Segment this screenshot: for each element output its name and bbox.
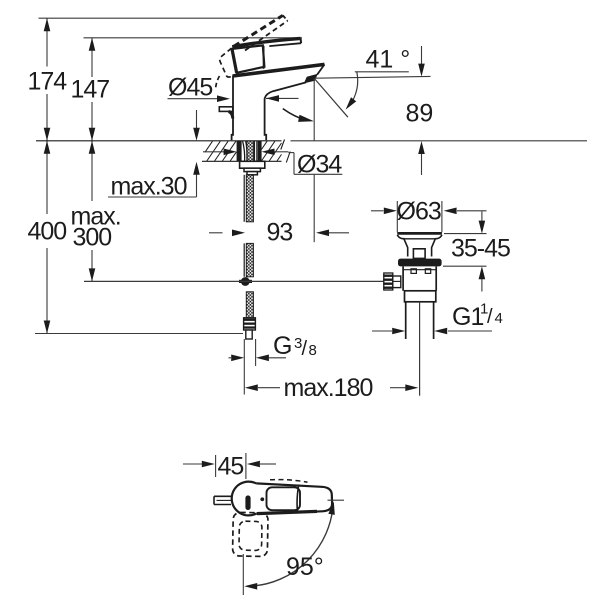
dim 89 arrow up <box>418 141 425 154</box>
dim G114 left line <box>372 330 392 332</box>
dim G114 arrow left <box>434 328 447 335</box>
svg-text:89: 89 <box>406 100 434 128</box>
svg-text:max.180: max.180 <box>284 374 373 402</box>
drain flange top thick line <box>397 232 442 235</box>
dim 174 arrow down <box>44 128 51 141</box>
95deg arrow left <box>244 583 257 590</box>
dim max180 arrow right <box>405 384 418 391</box>
dim 89 upper line <box>421 46 423 65</box>
dashed raised lever top edge <box>234 15 283 46</box>
dim G114 arrow right <box>392 328 405 335</box>
counter top line left part <box>36 140 282 142</box>
95deg vertical leg <box>242 554 244 595</box>
dim 400 arrow down <box>44 321 51 334</box>
dim d45 arrow left at body right edge <box>266 95 279 102</box>
dim d34 underline <box>294 173 342 175</box>
svg-text:147: 147 <box>71 76 110 104</box>
handle lever bottom edge <box>269 43 301 46</box>
pop-up rod knob <box>219 107 233 112</box>
41deg underline <box>355 71 409 73</box>
dim G38 left line <box>229 357 232 359</box>
faucet body right edge <box>265 99 267 141</box>
svg-text:300: 300 <box>73 224 112 252</box>
top view body bottom edge thick <box>257 511 317 513</box>
horizontal pop-up rod / max300 reference line <box>84 280 384 282</box>
dim d34 right line <box>274 151 289 153</box>
dim 45 extension left <box>215 455 217 477</box>
pop-up rod curve in hole <box>243 141 245 161</box>
rod attachment inner line <box>393 280 401 282</box>
dim 3545 arrow up <box>479 266 486 279</box>
drain flange left profile <box>397 235 407 257</box>
dim 3545 upper line <box>481 212 483 222</box>
hose end connector <box>246 330 252 339</box>
svg-text:Ø45: Ø45 <box>168 74 212 102</box>
dim 3545 upper extension <box>444 233 487 235</box>
handle neck edge <box>263 46 265 69</box>
svg-text:35-45: 35-45 <box>451 235 510 263</box>
dim d34 arrow left at hole right edge <box>262 149 275 156</box>
dim 3545 arrow down <box>479 221 486 234</box>
svg-text:95°: 95° <box>286 553 324 581</box>
svg-text:/: / <box>302 338 308 360</box>
spout swing arc arrowhead <box>298 115 314 122</box>
drain tailpipe centerline / max180 extension <box>419 302 421 396</box>
dim 45 arrow left <box>247 461 260 468</box>
dim d34 leader from counter break <box>289 152 295 154</box>
handle lever top edge thick <box>232 38 300 46</box>
svg-text:G1: G1 <box>452 303 483 331</box>
dim 147 vertical line upper <box>91 38 93 77</box>
top view stub middle line <box>217 499 232 501</box>
handle lever end cap <box>300 38 303 43</box>
drain flange underside line <box>404 238 435 240</box>
counter hatching <box>205 141 282 161</box>
dim d45 right line <box>266 97 299 99</box>
95deg arrow up <box>328 502 335 515</box>
drain body left side <box>402 266 404 290</box>
dim max300 arrow up <box>89 141 96 154</box>
dim max300 vertical line upper <box>91 141 93 201</box>
braided hose checker segments <box>247 141 254 161</box>
dim max180 line left <box>258 387 280 389</box>
dim max180 arrow left <box>245 384 258 391</box>
dim G114 right line <box>448 330 492 332</box>
dim d45 leader line <box>168 98 218 100</box>
shank tube line 2 <box>256 141 258 161</box>
dim 45 extension right <box>245 453 247 479</box>
svg-text:45: 45 <box>218 453 244 481</box>
95deg arc <box>251 504 334 587</box>
dashed raised lever tip <box>283 15 288 20</box>
dim 147 arrow down <box>89 128 96 141</box>
dim 45 right line <box>260 463 276 465</box>
top view spout section line <box>297 485 299 511</box>
d63 extension line left <box>396 201 398 232</box>
svg-text:Ø34: Ø34 <box>297 151 342 179</box>
counter break mark upper <box>281 140 285 150</box>
faucet body left edge <box>232 76 233 141</box>
counter bottom line <box>202 160 282 162</box>
dim max300 arrow down <box>89 268 96 281</box>
dim 147 top extension line <box>84 37 303 39</box>
svg-text:4: 4 <box>495 310 503 327</box>
spout underside <box>265 82 306 98</box>
aerator black face <box>304 74 318 84</box>
top view lever slot <box>260 497 264 501</box>
svg-text:/: / <box>487 306 493 328</box>
d63 extension line right <box>441 201 443 232</box>
shank tube line <box>254 141 256 161</box>
spout swing arc <box>283 109 306 120</box>
dim 400 bottom reference line <box>35 333 243 335</box>
top view body outline right <box>256 483 332 513</box>
drain body inner line <box>403 269 436 271</box>
dim 174 vertical line lower <box>46 94 48 141</box>
dim d34 left line <box>203 151 224 153</box>
dim 93 right line <box>329 232 349 234</box>
dim max30 arrow down at counter top <box>193 128 200 141</box>
dim 3545 lower line <box>481 279 483 292</box>
dim 93 arrow left <box>316 230 329 237</box>
41deg arc arrowhead <box>346 97 357 109</box>
top view stub top <box>214 495 231 497</box>
handle base outline <box>232 45 264 72</box>
drain overflow slot right <box>425 269 430 274</box>
dim max30 arrow up at counter bottom <box>193 162 200 175</box>
dim 174 arrow up <box>44 18 51 31</box>
drain rod attachment body <box>393 276 401 288</box>
dim 174 vertical line upper <box>46 18 48 66</box>
dim d63 arrow left <box>444 208 457 215</box>
dim max300 vertical line lower <box>91 250 93 281</box>
pop-up rod lower segment <box>243 243 245 276</box>
pop-up rod upper segment <box>243 175 245 222</box>
spout outlet level line <box>314 76 430 78</box>
spout tip edge <box>317 64 324 74</box>
top view spout window <box>267 487 301 510</box>
dashed raised lever bottom edge <box>245 21 288 51</box>
drain tailpipe left wall <box>405 302 407 339</box>
dim d63 left line <box>371 210 384 212</box>
mounting nut step <box>244 168 260 171</box>
dim 400 arrow up <box>44 141 51 154</box>
dim d63 arrow right <box>384 208 397 215</box>
mounting nut step 2 <box>247 172 257 175</box>
top view stub bottom <box>214 504 231 506</box>
spout outlet extension line upper <box>313 79 315 141</box>
dim d34 arrow right at hole left edge <box>224 149 237 156</box>
dim 89 arrow down <box>418 64 425 77</box>
dim 147 vertical line lower <box>91 102 93 141</box>
drain overflow slot left <box>411 269 416 274</box>
dim G38 right line <box>269 357 286 359</box>
top view body left cap circle <box>232 482 256 516</box>
drain rod attachment ribs <box>384 273 393 290</box>
top view dashed line above body <box>270 480 308 483</box>
drain plug knob <box>413 249 425 259</box>
41deg diagonal leg <box>315 79 348 118</box>
dim G38 arrow right <box>231 355 244 362</box>
dashed swing arc <box>216 76 220 88</box>
dashed raised handle base outline <box>220 48 251 77</box>
dim G38 arrow left <box>256 355 269 362</box>
shank wall right black <box>258 141 262 161</box>
pop-up rod curve 2 <box>246 141 248 161</box>
counter top extension line right <box>291 140 588 142</box>
dim 93 left line <box>209 232 223 234</box>
drain flange right profile <box>432 235 442 257</box>
dim 93 arrow right <box>232 230 245 237</box>
mounting nut <box>240 161 265 168</box>
counter break mark lower <box>286 152 290 163</box>
dim 400 vertical line lower <box>46 248 48 334</box>
dim 3545 lower extension <box>443 265 487 267</box>
95deg horizontal tick <box>328 499 345 501</box>
top view stub end <box>213 496 215 504</box>
dim max30 upper leader <box>196 110 198 129</box>
svg-text:G: G <box>273 332 291 360</box>
dim 45 arrow right <box>202 461 215 468</box>
dim 400 vertical line upper <box>46 141 48 214</box>
handle base left edge thick <box>232 49 237 73</box>
drain step ring <box>405 291 436 302</box>
svg-text:400: 400 <box>28 218 67 246</box>
dim max180 line right <box>390 387 406 389</box>
drain tailpipe right wall <box>433 302 435 339</box>
hose extension line for G38 <box>255 339 257 366</box>
svg-text:93: 93 <box>267 219 293 247</box>
dim max30 underline <box>108 196 197 198</box>
svg-text:174: 174 <box>28 68 68 96</box>
dim 174 top extension line <box>39 17 279 19</box>
svg-text:Ø63: Ø63 <box>397 198 441 226</box>
dim 147 arrow up <box>89 38 96 51</box>
svg-text:41 °: 41 ° <box>366 46 411 74</box>
top view dashed handle outer <box>233 512 269 556</box>
41deg arc <box>350 72 358 106</box>
pop-up rod junction dot <box>239 280 252 283</box>
spout outlet extension line lower <box>313 174 315 242</box>
hose extension line for max180 <box>243 339 245 395</box>
dim max30 leader vertical lower <box>196 166 198 197</box>
dim d45 arrow right at body left edge <box>217 95 230 102</box>
drain body right side <box>435 266 437 290</box>
svg-text:8: 8 <box>309 342 317 359</box>
pop-up rod knob curve <box>229 112 233 119</box>
hose end nut <box>244 318 256 330</box>
spout top edge thick <box>233 64 325 76</box>
dim 89 lower line <box>421 154 423 175</box>
dim d63 right line <box>457 210 487 212</box>
svg-text:max.30: max.30 <box>111 173 187 201</box>
dim 45 left line <box>183 463 202 465</box>
dim d34 leader vertical <box>293 153 295 175</box>
shank wall left black <box>237 141 242 161</box>
